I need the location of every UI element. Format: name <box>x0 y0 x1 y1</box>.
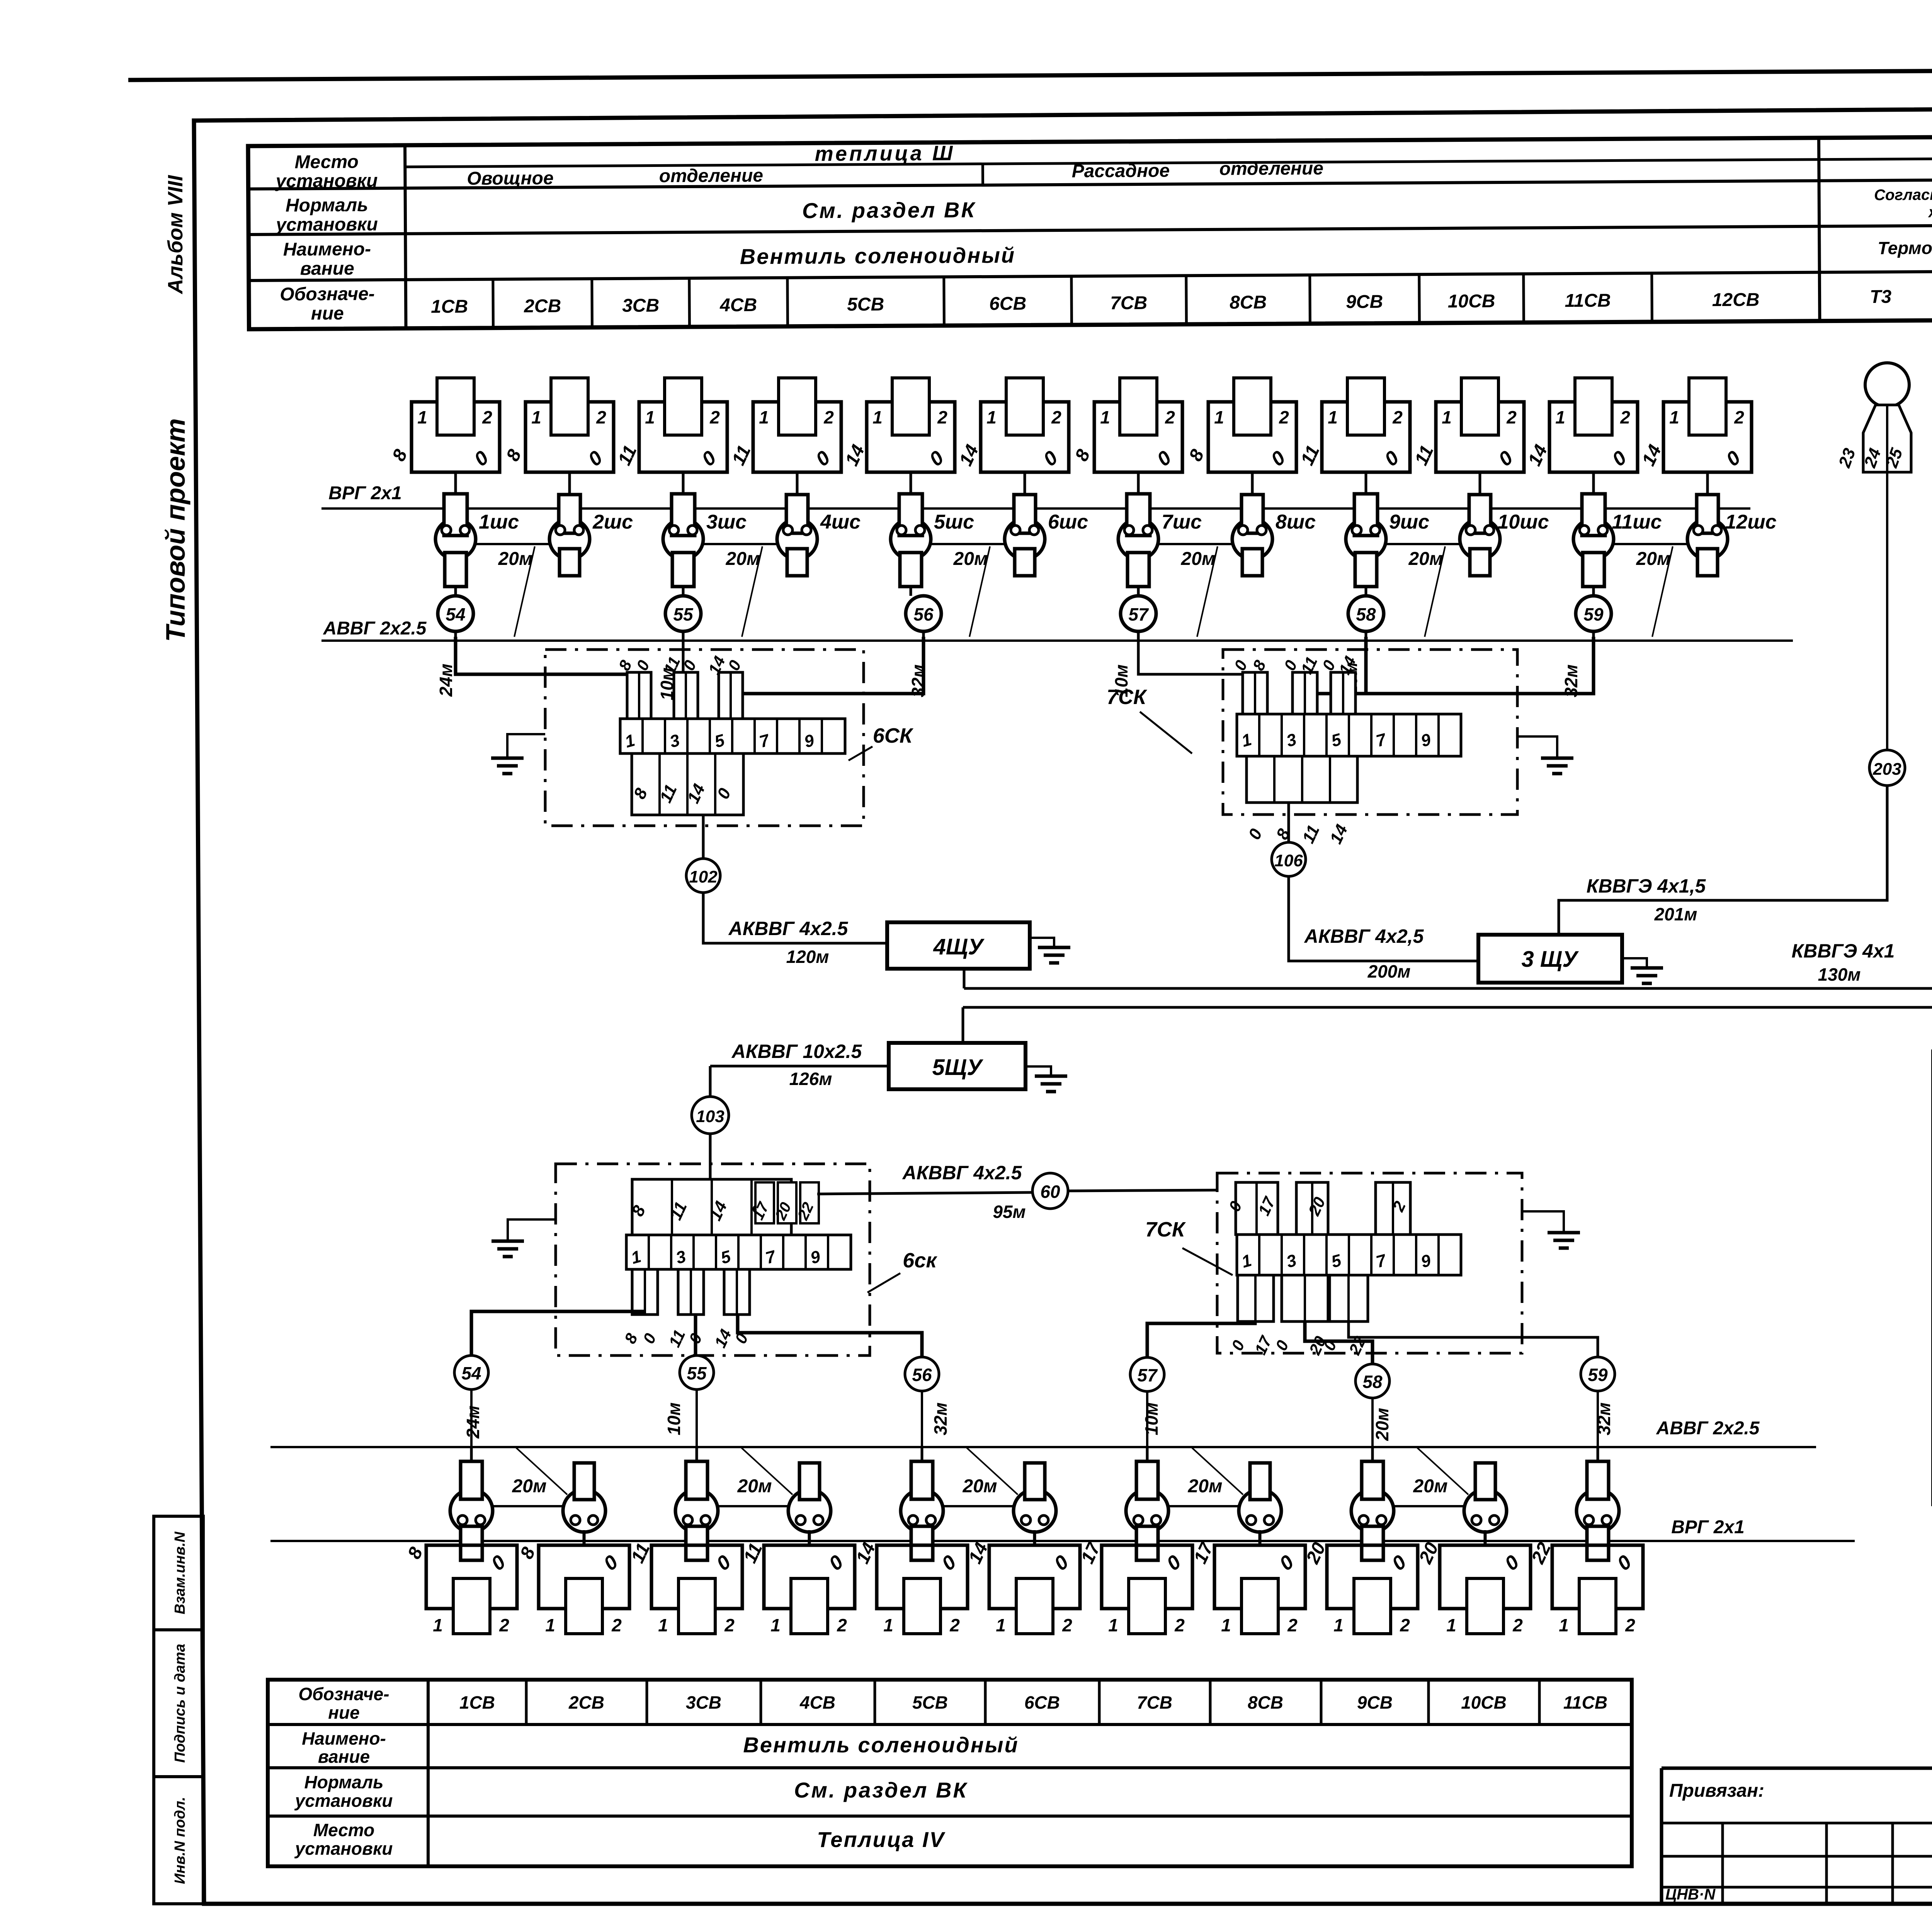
wire 4ЩУ stub to КВВГЭ 4х1 130м line <box>963 969 966 988</box>
svg-text:10СВ: 10СВ <box>1461 1692 1507 1713</box>
svg-text:Подпись и дата: Подпись и дата <box>172 1644 188 1763</box>
svg-text:5ЩУ: 5ЩУ <box>932 1055 984 1080</box>
ground (5ЩУ) <box>1026 1066 1067 1092</box>
svg-text:20м: 20м <box>1413 1476 1448 1497</box>
node 57 (cable marker, bottom) <box>1130 1357 1164 1391</box>
svg-text:20м: 20м <box>512 1476 547 1497</box>
svg-text:теплица Ш: теплица Ш <box>815 141 955 165</box>
wire bus АВВГ 2х2.5 (bottom) <box>270 1446 1816 1448</box>
svg-text:2: 2 <box>596 407 606 427</box>
svg-text:Обозначе-: Обозначе- <box>280 284 375 304</box>
svg-text:1: 1 <box>1555 407 1565 427</box>
svg-text:1: 1 <box>531 407 541 427</box>
node 56 (cable marker, top) <box>906 596 941 641</box>
plug connector pair 11 (bottom) main <box>1577 1447 1619 1560</box>
svg-text:отделение: отделение <box>1219 158 1324 179</box>
wire 57 drop 10м <box>1138 637 1255 715</box>
6СК upper terminal strip <box>620 719 845 753</box>
cable leader 5-6 <box>969 546 990 637</box>
node 102 (cable marker) <box>686 859 720 893</box>
solenoid valve 1СВ (Теплица III) <box>388 378 500 496</box>
6СК upper top stubs <box>615 653 745 719</box>
svg-text:2: 2 <box>499 1615 509 1635</box>
svg-text:Овощное: Овощное <box>467 168 554 189</box>
wire bus АВВГ 2х2.5 (top) <box>321 639 1793 642</box>
svg-text:20м: 20м <box>953 549 988 569</box>
svg-text:2: 2 <box>949 1615 960 1635</box>
cable leader pair (bottom) <box>742 1448 793 1495</box>
wire cable КВВГЭ 4х1.5 201м (3ЩУ to node 203) <box>1559 785 1887 935</box>
svg-text:12СВ: 12СВ <box>1712 290 1760 311</box>
solenoid valve 1СВ (Теплица IV) <box>404 1544 517 1635</box>
svg-text:58: 58 <box>1356 604 1376 624</box>
svg-text:отделение: отделение <box>659 165 764 186</box>
ground (6СК upper) <box>491 734 545 774</box>
svg-text:9СВ: 9СВ <box>1346 292 1383 313</box>
wire link 9шс-10шс (20м) <box>1386 543 1460 545</box>
svg-text:Т3: Т3 <box>1870 287 1892 307</box>
svg-text:8СВ: 8СВ <box>1248 1692 1283 1713</box>
svg-text:установки: установки <box>275 170 378 191</box>
cable leader pair (bottom) <box>516 1448 567 1495</box>
plug connector pair 7 (bottom) main <box>1126 1447 1168 1560</box>
wire 57 riser 10м (bottom) <box>1147 1321 1255 1357</box>
svg-text:Нормаль: Нормаль <box>304 1772 384 1792</box>
wire 5ЩУ stub to КВВГЭ 4х1 137м line <box>962 1007 964 1043</box>
svg-text:1: 1 <box>986 407 997 427</box>
svg-text:2: 2 <box>1051 407 1061 427</box>
solenoid valve 2СВ (Теплица III) <box>502 378 614 496</box>
solenoid valve 5СВ (Теплица IV) <box>852 1539 968 1635</box>
svg-text:3СВ: 3СВ <box>686 1692 721 1713</box>
svg-text:Типовой проект: Типовой проект <box>160 418 190 642</box>
svg-text:Наимено-: Наимено- <box>302 1728 386 1748</box>
plug connector 8шс <box>1232 472 1316 576</box>
node 54 (cable marker, bottom) <box>454 1355 488 1389</box>
svg-text:3СВ: 3СВ <box>622 295 659 316</box>
svg-text:Вентиль соленоидный: Вентиль соленоидный <box>743 1733 1019 1757</box>
svg-text:установки: установки <box>294 1791 393 1811</box>
panel 3ЩУ <box>1478 935 1622 983</box>
top table dividers Овощное/Рассадное <box>981 164 984 185</box>
solenoid valve 10СВ (Теплица IV) <box>1415 1530 1531 1635</box>
wire link pair 1-2 (bottom, 20м) <box>492 1505 564 1507</box>
svg-text:Обозначе-: Обозначе- <box>298 1684 389 1704</box>
svg-text:Нормаль: Нормаль <box>286 195 368 216</box>
svg-text:1: 1 <box>770 1615 781 1635</box>
cable leader 3-4 <box>742 546 762 637</box>
svg-text:1: 1 <box>1100 407 1110 427</box>
margin stamp box: Инв. N подл. <box>154 1777 203 1904</box>
svg-text:2: 2 <box>1174 1615 1185 1635</box>
ground (6СК lower) <box>492 1219 556 1257</box>
svg-text:7шс: 7шс <box>1162 511 1202 533</box>
svg-text:2: 2 <box>1506 407 1517 427</box>
svg-text:1: 1 <box>1333 1615 1344 1635</box>
title block annex Привязан <box>1662 1767 1932 1770</box>
svg-text:1: 1 <box>872 407 883 427</box>
wire 6СК to node 102 <box>702 815 705 859</box>
plug connector pair 6 (bottom) secondary <box>1014 1463 1056 1546</box>
svg-text:1: 1 <box>996 1615 1006 1635</box>
svg-text:Место: Место <box>313 1820 374 1840</box>
plug connector pair 5 (bottom) main <box>901 1447 943 1560</box>
svg-text:Рассадное: Рассадное <box>1071 161 1170 182</box>
svg-text:54: 54 <box>446 604 465 624</box>
svg-text:АКВВГ 4х2.5: АКВВГ 4х2.5 <box>902 1162 1022 1184</box>
6СК lower bottom stubs <box>621 1269 752 1350</box>
solenoid valve 6СВ (Теплица IV) <box>965 1530 1080 1635</box>
svg-text:1: 1 <box>1442 407 1452 427</box>
svg-text:6СВ: 6СВ <box>1024 1692 1060 1713</box>
ground (7СК upper) <box>1517 736 1573 774</box>
svg-text:1: 1 <box>1214 407 1224 427</box>
top table row lines <box>248 179 1932 189</box>
svg-text:ВРГ 2х1: ВРГ 2х1 <box>328 483 402 503</box>
plug connector pair 3 (bottom) main <box>675 1447 718 1560</box>
plug connector 7шс <box>1118 494 1202 596</box>
svg-text:20м: 20м <box>1408 549 1443 569</box>
svg-text:Вентиль соленоидный: Вентиль соленоидный <box>740 243 1016 269</box>
svg-text:1: 1 <box>1221 1615 1231 1635</box>
bottom table valve columns <box>525 1680 528 1725</box>
solenoid valve 4СВ (Теплица IV) <box>740 1530 855 1635</box>
svg-text:АКВВГ 10х2.5: АКВВГ 10х2.5 <box>731 1041 862 1062</box>
wire bus ВРГ 2х1 (top) <box>321 507 1750 510</box>
svg-text:2: 2 <box>1062 1615 1072 1635</box>
top table valve columns <box>492 279 495 328</box>
svg-text:2: 2 <box>837 1615 847 1635</box>
svg-text:2: 2 <box>1279 407 1289 427</box>
7СК upper bottom stub <box>1245 756 1357 847</box>
svg-text:3 ЩУ: 3 ЩУ <box>1522 947 1579 972</box>
svg-text:Альбом VIII: Альбом VIII <box>164 175 187 294</box>
wire 55 riser 10м (bottom) <box>694 1315 697 1355</box>
solenoid valve 9СВ (Теплица III) <box>1297 378 1410 496</box>
svg-text:АКВВГ 4х2,5: АКВВГ 4х2,5 <box>1304 925 1424 947</box>
svg-text:59: 59 <box>1588 1365 1608 1385</box>
plug connector 3шс <box>663 494 747 596</box>
svg-text:20м: 20м <box>1636 549 1671 569</box>
svg-text:2шс: 2шс <box>592 511 633 533</box>
wire cable АКВВГ 4х2.5 95м (6СК to 7СК lower) <box>817 1192 1032 1194</box>
node 60 (cable marker) <box>1032 1173 1068 1209</box>
solenoid valve 7СВ (Теплица IV) <box>1077 1539 1192 1635</box>
svg-text:11СВ: 11СВ <box>1565 291 1611 311</box>
svg-text:10м: 10м <box>664 1402 684 1435</box>
wire link pair 5-6 (bottom, 20м) <box>942 1505 1015 1507</box>
wire link pair 3-4 (bottom, 20м) <box>717 1505 789 1507</box>
plug connector 11шс <box>1573 494 1662 596</box>
svg-text:2: 2 <box>1734 407 1744 427</box>
svg-text:20м: 20м <box>963 1476 997 1497</box>
svg-text:59: 59 <box>1583 604 1604 624</box>
wire node 203 lead down <box>1886 786 1888 900</box>
wire 59 riser 32м (bottom) <box>1349 1321 1598 1356</box>
svg-text:32м: 32м <box>908 664 928 697</box>
svg-text:АВВГ 2х2.5: АВВГ 2х2.5 <box>323 618 427 639</box>
7СК lower top stubs <box>1225 1182 1410 1235</box>
cable leader pair (bottom) <box>1192 1448 1243 1495</box>
6СК lower top stub (wide) <box>628 1179 791 1235</box>
svg-text:12шс: 12шс <box>1725 511 1777 533</box>
svg-text:2: 2 <box>937 407 947 427</box>
7СК upper top stubs <box>1231 653 1359 714</box>
svg-text:106: 106 <box>1274 851 1303 870</box>
svg-text:2: 2 <box>1512 1615 1523 1635</box>
svg-text:4СВ: 4СВ <box>719 295 757 316</box>
panel 4ЩУ <box>887 922 1030 969</box>
resistance thermometer Т3 <box>1835 363 1911 472</box>
svg-text:95м: 95м <box>993 1202 1026 1222</box>
wire 54 drop 24м <box>456 637 639 719</box>
node 55 (cable marker, top) <box>665 596 701 641</box>
top table section line (thermometers) <box>1819 138 1820 321</box>
wire link 11шс-12шс (20м) <box>1614 543 1687 545</box>
cable leader 7-8 <box>1197 546 1218 637</box>
svg-text:20м: 20м <box>1188 1476 1223 1497</box>
panel 5ЩУ <box>889 1043 1026 1089</box>
svg-text:201м: 201м <box>1654 904 1697 924</box>
svg-text:11СВ: 11СВ <box>1563 1692 1607 1713</box>
svg-text:7СВ: 7СВ <box>1137 1692 1172 1713</box>
wire 54 riser 24м (bottom) <box>643 1311 646 1315</box>
wire cable АКВВГ 4х2.5 120м to 4ЩУ <box>703 893 887 943</box>
wire bus ВРГ 2х1 (bottom) <box>270 1540 1855 1542</box>
svg-text:57: 57 <box>1128 604 1149 624</box>
sheet top rule <box>128 66 1932 80</box>
wire cable АКВВГ 10х2.5 126м to 5ЩУ <box>710 1065 889 1068</box>
svg-text:8СВ: 8СВ <box>1230 292 1267 313</box>
svg-text:2СВ: 2СВ <box>524 296 561 317</box>
margin stamp box: Подпись и дата <box>154 1630 203 1777</box>
svg-text:Инв.N подл.: Инв.N подл. <box>172 1797 188 1884</box>
svg-text:7СК: 7СК <box>1107 685 1148 709</box>
svg-text:жу и эксплуатации: жу и эксплуатации <box>1928 203 1932 221</box>
wire 58 drop 20м <box>1304 637 1366 715</box>
wire cable АКВВГ 4х2.5 200м to 3ЩУ <box>1289 876 1478 961</box>
svg-text:2: 2 <box>1165 407 1175 427</box>
svg-text:20м: 20м <box>726 549 760 569</box>
svg-text:1шс: 1шс <box>479 511 519 533</box>
bottom table frame <box>268 1680 1632 1866</box>
wire 56 riser 32м (bottom) <box>738 1315 922 1356</box>
plug connector 4шс <box>777 472 861 576</box>
svg-text:КВВГЭ 4х1: КВВГЭ 4х1 <box>1792 940 1895 962</box>
svg-text:1: 1 <box>1559 1615 1569 1635</box>
6СК lower terminal strip <box>626 1235 851 1269</box>
svg-text:КВВГЭ 4х1,5: КВВГЭ 4х1,5 <box>1587 875 1706 897</box>
svg-text:2: 2 <box>1287 1615 1298 1635</box>
wire 59 drop 32м <box>1344 637 1594 715</box>
svg-text:20м: 20м <box>1372 1408 1392 1441</box>
svg-text:9СВ: 9СВ <box>1357 1692 1393 1713</box>
svg-text:1СВ: 1СВ <box>459 1692 495 1713</box>
wire 7СК to node 106 <box>1287 803 1290 842</box>
svg-text:10м: 10м <box>1141 1402 1162 1435</box>
svg-text:2: 2 <box>724 1615 735 1635</box>
solenoid valve 11СВ (Теплица III) <box>1524 378 1638 496</box>
svg-text:1: 1 <box>545 1615 555 1635</box>
svg-text:200м: 200м <box>1367 961 1411 981</box>
svg-text:6СВ: 6СВ <box>989 293 1026 314</box>
6СК upper bottom stub <box>630 753 743 815</box>
wire link 3шс-4шс (20м) <box>703 543 777 545</box>
svg-text:5СВ: 5СВ <box>912 1692 948 1713</box>
node 55 (cable marker, bottom) <box>680 1355 714 1389</box>
svg-text:См. раздел ВК: См. раздел ВК <box>802 197 976 223</box>
svg-text:6шс: 6шс <box>1048 511 1088 533</box>
plug connector pair 4 (bottom) secondary <box>788 1463 831 1546</box>
svg-text:58: 58 <box>1362 1372 1383 1392</box>
solenoid valve 4СВ (Теплица III) <box>728 378 841 496</box>
svg-text:2: 2 <box>1620 407 1630 427</box>
svg-text:2: 2 <box>1625 1615 1635 1635</box>
svg-text:1: 1 <box>1328 407 1338 427</box>
svg-text:Теплица IV: Теплица IV <box>817 1827 946 1852</box>
svg-text:56: 56 <box>913 604 934 624</box>
margin stamp box: Взам. инв. N <box>154 1516 203 1630</box>
svg-text:103: 103 <box>696 1107 724 1126</box>
svg-text:ние: ние <box>311 303 344 324</box>
wire 58 riser 20м (bottom) <box>1305 1321 1372 1363</box>
svg-text:2: 2 <box>482 407 492 427</box>
svg-text:57: 57 <box>1137 1365 1158 1385</box>
solenoid valve 8СВ (Теплица III) <box>1185 378 1296 496</box>
svg-text:ВРГ 2х1: ВРГ 2х1 <box>1671 1517 1745 1537</box>
svg-text:56: 56 <box>912 1365 932 1385</box>
svg-text:54: 54 <box>461 1363 481 1383</box>
node 59 (cable marker, bottom) <box>1581 1357 1615 1391</box>
wire cable КВВГЭ 4х1 130м (to node 204) <box>964 785 1932 988</box>
svg-text:вание: вание <box>300 259 354 279</box>
svg-text:32м: 32м <box>930 1402 951 1435</box>
svg-text:1: 1 <box>1669 407 1679 427</box>
svg-text:130м: 130м <box>1818 964 1861 985</box>
svg-text:Привязан:: Привязан: <box>1669 1781 1764 1801</box>
svg-text:2: 2 <box>1400 1615 1410 1635</box>
svg-text:2: 2 <box>823 407 834 427</box>
svg-text:Взам.инв.N: Взам.инв.N <box>172 1531 188 1614</box>
svg-text:1: 1 <box>433 1615 443 1635</box>
plug connector 6шс <box>1005 472 1088 576</box>
cable leader 9-10 <box>1425 546 1445 637</box>
cable leader 11-12 <box>1652 546 1673 637</box>
plug connector pair 10 (bottom) secondary <box>1464 1463 1507 1546</box>
ground (4ЩУ) <box>1030 938 1070 963</box>
svg-text:11шс: 11шс <box>1612 511 1662 533</box>
wire link pair 9-10 (bottom, 20м) <box>1393 1505 1465 1507</box>
svg-text:20м: 20м <box>498 549 533 569</box>
solenoid valve 5СВ (Теплица III) <box>842 378 955 496</box>
plug connector pair 8 (bottom) secondary <box>1239 1463 1281 1546</box>
svg-text:ние: ние <box>328 1702 359 1723</box>
svg-text:32м: 32м <box>1561 664 1581 697</box>
wire Т3 lead <box>1886 472 1888 750</box>
svg-text:Место: Место <box>294 152 359 173</box>
solenoid valve 12СВ (Теплица III) <box>1638 378 1752 496</box>
svg-text:1: 1 <box>759 407 769 427</box>
solenoid valve 9СВ (Теплица IV) <box>1302 1539 1418 1635</box>
node 103 (cable marker) <box>692 1097 729 1134</box>
svg-text:20м: 20м <box>1181 549 1216 569</box>
svg-text:20м: 20м <box>737 1476 772 1497</box>
svg-text:2: 2 <box>611 1615 622 1635</box>
svg-text:6ск: 6ск <box>903 1249 937 1272</box>
svg-text:ЦНВ·N: ЦНВ·N <box>1665 1886 1716 1903</box>
svg-text:4ЩУ: 4ЩУ <box>933 934 985 959</box>
plug connector 12шс <box>1687 472 1777 576</box>
svg-text:2: 2 <box>1392 407 1403 427</box>
svg-text:установки: установки <box>294 1838 393 1859</box>
plug connector 1шс <box>435 494 519 596</box>
cable leader 1-2 <box>514 546 535 637</box>
node 57 (cable marker, top) <box>1121 596 1156 641</box>
svg-text:7СК: 7СК <box>1145 1218 1186 1241</box>
svg-text:126м: 126м <box>789 1069 832 1089</box>
node 106 (cable marker) <box>1272 842 1306 876</box>
svg-text:102: 102 <box>689 867 718 886</box>
junction box 7СК (upper) enclosure <box>1223 650 1517 815</box>
junction box 7СК (lower) enclosure <box>1217 1173 1522 1353</box>
plug connector 9шс <box>1346 494 1429 596</box>
svg-text:120м: 120м <box>786 947 829 967</box>
svg-text:5СВ: 5СВ <box>847 294 884 315</box>
6СК lower extra cells 17 20 22 <box>750 1182 819 1223</box>
svg-text:2СВ: 2СВ <box>568 1692 604 1713</box>
svg-text:3шс: 3шс <box>706 511 747 533</box>
svg-text:55: 55 <box>673 604 694 624</box>
7СК lower bottom stubs <box>1228 1275 1369 1358</box>
svg-text:4шс: 4шс <box>820 511 861 533</box>
svg-text:Наимено-: Наимено- <box>283 239 371 260</box>
svg-text:1: 1 <box>645 407 655 427</box>
junction box 6СК (upper) enclosure <box>545 650 864 826</box>
wire link pair 7-8 (bottom, 20м) <box>1167 1505 1240 1507</box>
svg-text:вание: вание <box>318 1747 370 1767</box>
svg-text:1: 1 <box>883 1615 893 1635</box>
svg-text:1: 1 <box>417 407 427 427</box>
solenoid valve 3СВ (Теплица III) <box>614 378 727 496</box>
wire node 103 to 6СК lower <box>709 1134 712 1179</box>
7СК upper terminal strip <box>1237 714 1461 756</box>
wire 56 drop 32м <box>730 637 923 719</box>
svg-text:АКВВГ 4х2.5: АКВВГ 4х2.5 <box>728 918 849 939</box>
bottom table label column <box>427 1680 430 1866</box>
bottom table rows <box>268 1723 1632 1726</box>
title block annex grid <box>1662 1822 1932 1825</box>
solenoid valve 7СВ (Теплица III) <box>1071 378 1182 496</box>
svg-text:203: 203 <box>1872 760 1901 779</box>
svg-text:Согласно инструкции по монта-: Согласно инструкции по монта- <box>1874 185 1932 204</box>
wire 5ЩУ feed down to node 103 <box>709 1066 712 1097</box>
solenoid valve 8СВ (Теплица IV) <box>1190 1530 1305 1635</box>
svg-text:4СВ: 4СВ <box>799 1692 835 1713</box>
svg-text:5шс: 5шс <box>934 511 974 533</box>
cable leader pair (bottom) <box>1417 1448 1468 1495</box>
solenoid valve 6СВ (Теплица III) <box>956 378 1069 496</box>
svg-text:55: 55 <box>687 1363 707 1383</box>
wire cable КВВГЭ 4х1 137м (to node 205) <box>963 785 1932 1007</box>
plug connector 5шс <box>891 494 974 596</box>
node 58 (cable marker, bottom) <box>1355 1364 1389 1398</box>
plug connector pair 2 (bottom) secondary <box>563 1463 605 1546</box>
solenoid valve 3СВ (Теплица IV) <box>627 1540 742 1635</box>
node 59 (cable marker, top) <box>1576 596 1611 641</box>
svg-text:7СВ: 7СВ <box>1110 293 1147 314</box>
top table frame <box>248 136 1932 329</box>
svg-text:6СК: 6СК <box>873 724 914 747</box>
